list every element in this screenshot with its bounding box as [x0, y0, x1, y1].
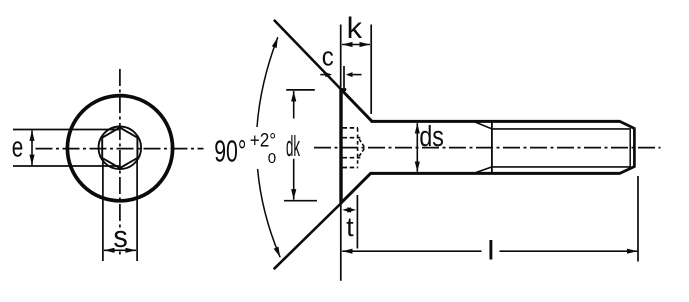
dim e arrow line: [31, 130, 33, 165]
side view horizontal centerline: [314, 147, 661, 149]
angle arc upper segment: [257, 37, 278, 127]
svg-text:c: c: [322, 41, 334, 71]
svg-text:ds: ds: [419, 121, 444, 153]
angle arc arrowhead top: [272, 37, 278, 48]
left view: horizontal centerline: [36, 148, 204, 150]
svg-text:s: s: [113, 219, 127, 254]
thread runout diagonal bottom: [476, 167, 492, 173]
dim c left arrow: [320, 72, 332, 77]
socket hidden line 2: [343, 137, 361, 139]
socket bottom vertical hidden line: [357, 128, 359, 167]
socket inner circle: [99, 127, 142, 170]
dim k right extension line: [370, 25, 372, 115]
countersink extension diagonal upper: [274, 20, 344, 93]
dim ds arrow line: [416, 123, 418, 172]
cone top edge: [343, 92, 372, 122]
label s background gap: [112, 228, 130, 249]
svg-text:+2°: +2°: [250, 129, 277, 151]
dim k left extension line: [340, 25, 342, 88]
dim c right arrow: [346, 72, 362, 77]
dim t right extension line: [356, 195, 358, 249]
end face: [633, 127, 636, 167]
svg-text:dk: dk: [286, 131, 300, 163]
label l: [489, 240, 492, 260]
svg-text:90°: 90°: [214, 133, 246, 168]
thread root top line: [492, 128, 630, 130]
thread start vertical line: [491, 122, 493, 173]
dim t arrows: [342, 207, 356, 212]
thread root bottom line: [492, 166, 630, 168]
cone bottom edge: [341, 173, 372, 204]
socket cone tip hidden line upper: [359, 139, 364, 147]
shaft top line: [371, 120, 621, 123]
dim dk bottom extension line: [284, 200, 317, 202]
dim dk top arrow stub: [293, 91, 295, 119]
dim l arrow line right part: [500, 250, 638, 252]
dim k arrow line: [342, 44, 370, 46]
countersink extension diagonal lower: [274, 203, 342, 270]
head outer circle: [67, 96, 172, 201]
dim s arrow line: [104, 249, 136, 251]
dim dk top extension line: [286, 89, 315, 91]
left view: vertical centerline: [119, 69, 121, 257]
shaft bottom line: [371, 172, 621, 175]
dim l left extension line: [340, 204, 342, 281]
end inner edge: [629, 128, 631, 167]
socket cone tip hidden line lower: [359, 148, 364, 156]
end chamfer bottom: [620, 167, 634, 174]
end chamfer top: [620, 121, 634, 128]
dim s right extension line: [136, 159, 138, 261]
dim e top extension line: [13, 129, 119, 131]
svg-text:0: 0: [268, 150, 276, 167]
angle arc arrowhead bottom: [274, 247, 281, 258]
thread runout diagonal top: [476, 122, 492, 129]
dim e bottom extension line: [13, 165, 119, 167]
svg-text:e: e: [12, 132, 23, 164]
head top edge land: [341, 88, 346, 91]
svg-text:k: k: [347, 12, 364, 45]
head face (left vertical edge): [339, 89, 342, 204]
dim s left extension line: [102, 159, 104, 261]
socket hidden line 1: [343, 127, 358, 129]
hex socket hexagon: [102, 128, 137, 169]
angle arc lower segment: [258, 169, 281, 257]
svg-text:t: t: [346, 212, 354, 242]
dim l arrow line left part: [342, 250, 481, 252]
dim dk bottom arrow stub: [293, 159, 295, 200]
dim c extension line: [343, 66, 345, 88]
dim l right extension line: [637, 176, 639, 262]
socket hidden line 4: [343, 167, 358, 169]
socket hidden line 3: [343, 157, 361, 159]
